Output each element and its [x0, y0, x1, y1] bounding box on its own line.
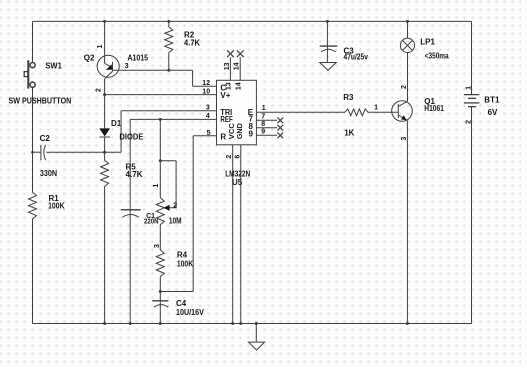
node junction R2 bottom to Q2 base — [167, 69, 170, 72]
svg-text:5: 5 — [207, 130, 211, 137]
label C1 — [146, 213, 155, 220]
node junction pin6 at bus — [239, 322, 242, 325]
label Q1 pin 2 rotated — [401, 85, 408, 89]
label LP1 current 350ma — [425, 52, 449, 61]
label U5 pin 13 inside rotated — [226, 82, 233, 90]
label U5 pin 1 — [262, 105, 266, 112]
svg-text:7: 7 — [261, 113, 265, 120]
svg-text:10: 10 — [202, 88, 210, 95]
svg-text:U5: U5 — [232, 178, 243, 187]
svg-text:H1061: H1061 — [424, 104, 444, 113]
capacitor C4 — [152, 301, 168, 308]
wire lamp top lead — [407, 21, 409, 38]
svg-text:VCC: VCC — [229, 123, 236, 139]
label U5 pin C — [220, 83, 226, 92]
wire R4 bottom to C4 and bus — [159, 277, 161, 324]
label Q1 pin 1 — [374, 105, 378, 112]
svg-text:1: 1 — [374, 105, 378, 112]
label C4 — [176, 299, 187, 308]
svg-text:8: 8 — [261, 121, 265, 128]
label Q1 pin 3 rotated — [401, 137, 408, 141]
label Q2 pin 2 rotated — [96, 88, 103, 92]
wire Q2 base lead to pin 12 — [113, 70, 217, 86]
label R4 — [177, 251, 188, 260]
svg-text:14: 14 — [235, 82, 242, 90]
label R3 value 1K — [344, 129, 354, 138]
wire pin 6 down to bus — [240, 145, 242, 324]
label U5 pin 14 inside rotated — [235, 82, 242, 90]
label R2 value 4.7K — [184, 38, 200, 47]
node junction C4 line at bottom bus — [159, 322, 162, 325]
label U5 pin name 8 — [249, 122, 254, 131]
ground symbol bottom — [249, 342, 265, 350]
svg-text:D1: D1 — [111, 119, 122, 128]
svg-text:1: 1 — [153, 184, 160, 188]
node junction C1 line at bottom bus — [129, 322, 132, 325]
svg-text:9: 9 — [249, 129, 254, 138]
svg-text:6: 6 — [235, 155, 242, 159]
wire V+ pin 10 to Q2 collector — [105, 94, 217, 96]
label U5 pin 6 below rotated — [235, 155, 242, 159]
label C2 — [40, 134, 51, 143]
svg-text:2: 2 — [226, 155, 233, 159]
capacitor C2 — [33, 145, 122, 160]
wire Q1 emitter down to bus — [406, 121, 408, 324]
svg-text:4: 4 — [206, 113, 210, 120]
svg-text:1K: 1K — [344, 129, 354, 138]
label U5 pin TRI — [220, 108, 232, 117]
wire pin 7 stub — [256, 119, 277, 121]
svg-text:3: 3 — [401, 137, 408, 141]
lamp LP1 — [400, 38, 414, 52]
label SW PUSHBUTTON — [9, 97, 72, 106]
label U5 pin 10 — [202, 88, 210, 95]
label R4 value 100K — [177, 259, 193, 268]
svg-text:6V: 6V — [488, 108, 498, 117]
label BT1 voltage 6V — [488, 108, 498, 117]
label U5 pin V+ — [220, 91, 230, 100]
node junction C2 wire at D1-R5 net — [103, 151, 106, 154]
label Q2 pin 3 — [125, 63, 129, 70]
label U5 pin 7 outside — [261, 113, 265, 120]
wire Q2 collector lead down — [104, 79, 106, 129]
label LM322N — [225, 170, 250, 179]
label U5 pin name 7 — [249, 115, 254, 124]
wire pin 8 stub — [256, 127, 277, 129]
label U5 pin E — [248, 108, 254, 117]
wire TRI pin 3 run — [121, 111, 216, 152]
label pot pin 2 — [173, 202, 177, 209]
svg-text:2: 2 — [465, 120, 472, 124]
potentiometer wiper arrow — [163, 205, 169, 211]
resistor R1 — [29, 192, 37, 219]
label C3 — [344, 47, 355, 56]
svg-text:12: 12 — [202, 80, 210, 87]
label Q2 — [84, 54, 95, 63]
potentiometer VR1 10M body — [156, 198, 164, 225]
wire SW1 top lead — [32, 21, 34, 63]
svg-text:10U/16V: 10U/16V — [176, 308, 204, 317]
label A1015 — [128, 54, 149, 63]
svg-text:SW1: SW1 — [45, 61, 62, 70]
label R5 — [126, 163, 137, 172]
svg-text:2: 2 — [173, 202, 177, 209]
wire SW1 bottom lead down to bottom bus — [32, 87, 34, 324]
svg-text:1: 1 — [465, 86, 472, 90]
wire Q1 collector up to lamp — [407, 53, 409, 102]
diode D1 — [99, 128, 110, 137]
no-connect X pin 8 — [277, 125, 283, 131]
switch SW1 — [24, 60, 35, 88]
wire pin 1 E output run to R3 — [256, 111, 345, 113]
label Q2 pin 1 rotated — [97, 44, 104, 48]
label C3 value 47u/25v — [344, 53, 369, 62]
svg-text:330N: 330N — [40, 169, 57, 178]
svg-text:A1015: A1015 — [128, 54, 149, 63]
node junction top bus at LP1 — [406, 20, 409, 23]
svg-text:13: 13 — [224, 62, 231, 70]
svg-text:10M: 10M — [169, 217, 182, 226]
wire bottom ground bus — [33, 323, 472, 325]
node junction top bus at Q2 — [103, 20, 106, 23]
label DIODE — [119, 133, 144, 142]
wire REF pin 4 run — [130, 118, 216, 120]
svg-text:47u/25v: 47u/25v — [344, 53, 369, 62]
svg-text:4.7K: 4.7K — [184, 38, 200, 47]
label U5 pin 9 outside — [261, 129, 265, 136]
resistor R2 — [165, 21, 173, 70]
svg-text:4.7K: 4.7K — [126, 170, 143, 179]
no-connect X pin 14 — [237, 50, 244, 57]
wire REF down to C1 — [129, 119, 131, 323]
wire R3 to Q1 base — [368, 111, 398, 113]
label D1 — [111, 119, 122, 128]
svg-text:3: 3 — [125, 63, 129, 70]
svg-text:1: 1 — [262, 105, 266, 112]
label U5 pin GND rotated — [237, 123, 244, 139]
svg-text:<350ma: <350ma — [425, 52, 449, 61]
label R5 value 4.7K — [126, 170, 143, 179]
svg-text:100K: 100K — [177, 259, 193, 268]
node junction ground at bus — [255, 322, 258, 325]
svg-text:GND: GND — [237, 123, 244, 139]
label U5 pin 8 outside — [261, 121, 265, 128]
node junction REF at pot line — [159, 118, 162, 121]
label R1 — [49, 194, 60, 203]
label R3 — [343, 93, 354, 102]
capacitor C1 — [121, 210, 141, 218]
svg-text:BT1: BT1 — [484, 96, 500, 105]
svg-text:13: 13 — [226, 82, 233, 90]
wire R5 bottom to ground bus — [104, 187, 106, 324]
svg-text:R3: R3 — [343, 93, 354, 102]
svg-text:220N: 220N — [144, 219, 159, 226]
label U5 pin name 9 — [249, 129, 254, 138]
no-connect X pin 7 — [277, 117, 283, 123]
wire pot bottom to R4 — [159, 225, 161, 250]
svg-text:REF: REF — [220, 115, 232, 124]
label Q1 — [424, 97, 435, 106]
capacitor C3 — [320, 21, 338, 62]
label U5 pin VCC rotated — [229, 123, 236, 139]
label U5 pin 12 — [202, 80, 210, 87]
wire pot wiper tie — [160, 161, 176, 208]
label U5 pin 2 below rotated — [226, 155, 233, 159]
label U5 pin 13 outside rotated — [224, 62, 231, 70]
label pot pin 1 rotated — [153, 184, 160, 188]
node junction V+ at collector line — [103, 93, 106, 96]
svg-text:R: R — [220, 132, 226, 141]
wire pin 13 no-connect stub — [229, 57, 231, 80]
node junction top bus at C3 — [326, 20, 329, 23]
wire D1 cathode to R5 — [104, 137, 106, 160]
svg-text:2: 2 — [401, 85, 408, 89]
svg-text:LP1: LP1 — [420, 38, 435, 47]
ground symbol below C3 — [320, 63, 337, 71]
svg-text:C2: C2 — [40, 134, 51, 143]
label U5 pin R — [220, 132, 226, 141]
node junction pin2 at bus — [231, 322, 234, 325]
node junction top bus at R2 — [167, 20, 170, 23]
label pot pin 3 rotated — [154, 244, 161, 248]
label U5 pin 14 outside rotated — [234, 62, 241, 70]
svg-text:C4: C4 — [176, 299, 187, 308]
label C2 value 330N — [40, 169, 57, 178]
label C1 value 220N — [144, 219, 159, 226]
svg-text:3: 3 — [206, 105, 210, 112]
svg-text:1: 1 — [97, 44, 104, 48]
wire pot net from REF junction down — [159, 119, 161, 197]
resistor R5 — [101, 160, 109, 186]
wire ground stem at bottom — [255, 324, 257, 343]
label SW1 — [45, 61, 62, 70]
wire pin 2 down to bus — [232, 145, 234, 324]
svg-text:3: 3 — [154, 244, 161, 248]
label pot value 10M — [169, 217, 182, 226]
label U5 pin 4 — [206, 113, 210, 120]
svg-text:2: 2 — [96, 88, 103, 92]
label LP1 — [420, 38, 435, 47]
wire top supply bus — [33, 20, 472, 22]
label BT1 pin 2 rotated — [465, 120, 472, 124]
svg-text:9: 9 — [261, 129, 265, 136]
node junction C2 wire at SW line — [31, 151, 34, 154]
label R1 value 100K — [48, 202, 65, 211]
label U5 pin 5 — [207, 130, 211, 137]
svg-text:100K: 100K — [48, 202, 65, 211]
wire R pin 5 loop — [160, 136, 216, 292]
no-connect X pin 13 — [227, 50, 234, 57]
svg-text:14: 14 — [234, 62, 241, 70]
svg-text:R4: R4 — [177, 251, 188, 260]
battery BT1 — [464, 21, 480, 323]
wire pin 9 stub — [256, 134, 277, 136]
node junction R4-C4-pin5 — [159, 290, 162, 293]
node junction wiper tie at pot line — [159, 159, 162, 162]
transistor Q2 — [97, 55, 119, 79]
svg-text:Q2: Q2 — [84, 54, 95, 63]
label C4 value 10U/16V — [176, 308, 204, 317]
label U5 — [232, 178, 243, 187]
transistor Q1 — [392, 101, 413, 122]
label BT1 — [484, 96, 500, 105]
node junction Q1 emitter at bus — [406, 322, 409, 325]
resistor R3 — [345, 109, 368, 116]
label Q1 type H1061 — [424, 104, 444, 113]
no-connect X pin 9 — [277, 132, 283, 138]
svg-text:DIODE: DIODE — [119, 133, 144, 142]
label U5 pin REF — [220, 115, 232, 124]
node junction R5 line at bottom bus — [103, 322, 106, 325]
resistor R4 — [156, 250, 164, 277]
svg-text:SW PUSHBUTTON: SW PUSHBUTTON — [9, 97, 72, 106]
wire Q2 emitter lead from top bus — [104, 21, 106, 63]
label R2 — [184, 31, 195, 40]
svg-text:V+: V+ — [220, 91, 230, 100]
label U5 pin 3 — [206, 105, 210, 112]
wire pin 14 no-connect stub — [239, 57, 241, 80]
op-amp U5 LM322N body — [217, 80, 257, 145]
label BT1 pin 1 rotated — [465, 86, 472, 90]
